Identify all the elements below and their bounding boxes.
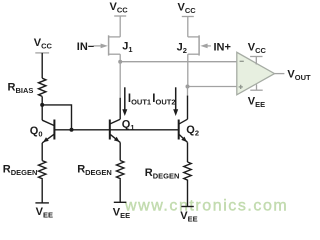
node C junction dot (RBIAS / Q0 collector / feedback loop) [40,103,44,107]
wire node A down toward Q1 collector (gray upper part) [119,62,121,99]
wire RDEGEN right to VEE [187,181,189,207]
resistor RDEGEN (middle) [117,161,124,180]
Q0 emitter arrowhead [43,137,49,142]
wire node B down toward Q2 collector (gray upper part) [187,87,189,97]
VEE terminal (left) [35,202,49,204]
op-amp VCC supply stub [255,57,257,65]
resistor RBIAS [39,78,46,96]
svg-text:Q1: Q1 [122,118,135,132]
svg-text:RBIAS: RBIAS [8,81,34,95]
transistor Q1 [110,98,120,161]
svg-text:www.cntronics.com: www.cntronics.com [124,198,288,215]
wire J1 source to node A (gray) [119,54,121,62]
svg-text:RDEGEN: RDEGEN [145,167,180,181]
svg-text:Q0: Q0 [30,125,43,139]
op-amp minus sign [240,60,244,62]
VCC terminal above J1 [114,15,126,17]
transistor Q0 [42,105,54,161]
svg-text:J1: J1 [122,40,132,54]
VCC terminal above RBIAS [35,52,49,54]
resistor RDEGEN (right) [184,162,191,181]
current arrow IOUT2 [175,87,177,110]
wire RBIAS to node C [41,96,43,105]
svg-text:Q2: Q2 [186,124,199,138]
svg-text:VEE: VEE [36,206,53,220]
J1 gate arrowhead [101,44,108,49]
resistor RDEGEN (left) [39,161,46,180]
Q1 emitter arrowhead [114,137,120,142]
svg-text:VOUT: VOUT [287,68,311,82]
wire J2 source down crossing minus line (gray) [187,54,189,86]
VEE terminal (right) [181,206,194,208]
wire collector-base loop [42,105,71,130]
wire base rail Q0-Q1-Q2 [55,129,178,131]
op-amp output wire [275,73,285,75]
node D junction dot (loop joins base rail) [70,128,74,132]
JFET J2 [188,17,211,56]
wire VCC to RBIAS [41,53,43,78]
op-amp U1 triangle [237,52,275,95]
svg-text:IOUT2: IOUT2 [152,93,175,107]
svg-text:IN+: IN+ [214,41,231,53]
svg-text:J2: J2 [177,41,187,55]
J2 gate arrowhead [200,44,207,49]
wire node B to op-amp non-inverting input [188,86,237,88]
wire RDEGEN middle to VEE [119,179,121,202]
svg-text:VEE: VEE [248,96,265,110]
svg-text:VCC: VCC [248,41,267,55]
svg-text:IN−: IN− [77,41,94,53]
JFET J1 [94,16,121,56]
wire RDEGEN left to VEE [41,179,43,203]
Q2 emitter arrowhead [181,137,187,142]
svg-text:VCC: VCC [110,1,129,15]
wire node A to op-amp inverting input [120,61,237,63]
svg-text:RDEGEN: RDEGEN [77,163,112,177]
VCC terminal above J2 [182,16,194,18]
node A junction dot (J1 source / Q1 collector / op-amp minus) [118,60,122,64]
current arrow IOUT1 [124,87,126,110]
svg-text:VCC: VCC [34,37,53,51]
svg-text:RDEGEN: RDEGEN [3,163,38,177]
svg-text:VCC: VCC [178,2,197,16]
VEE terminal (middle) [114,201,127,203]
node B junction dot (J2 source / Q2 collector / op-amp plus) [186,85,190,89]
transistor Q2 [179,96,188,162]
svg-text:IOUT1: IOUT1 [128,93,151,107]
op-amp plus sign [239,86,243,88]
op-amp VEE supply stub [256,84,258,90]
